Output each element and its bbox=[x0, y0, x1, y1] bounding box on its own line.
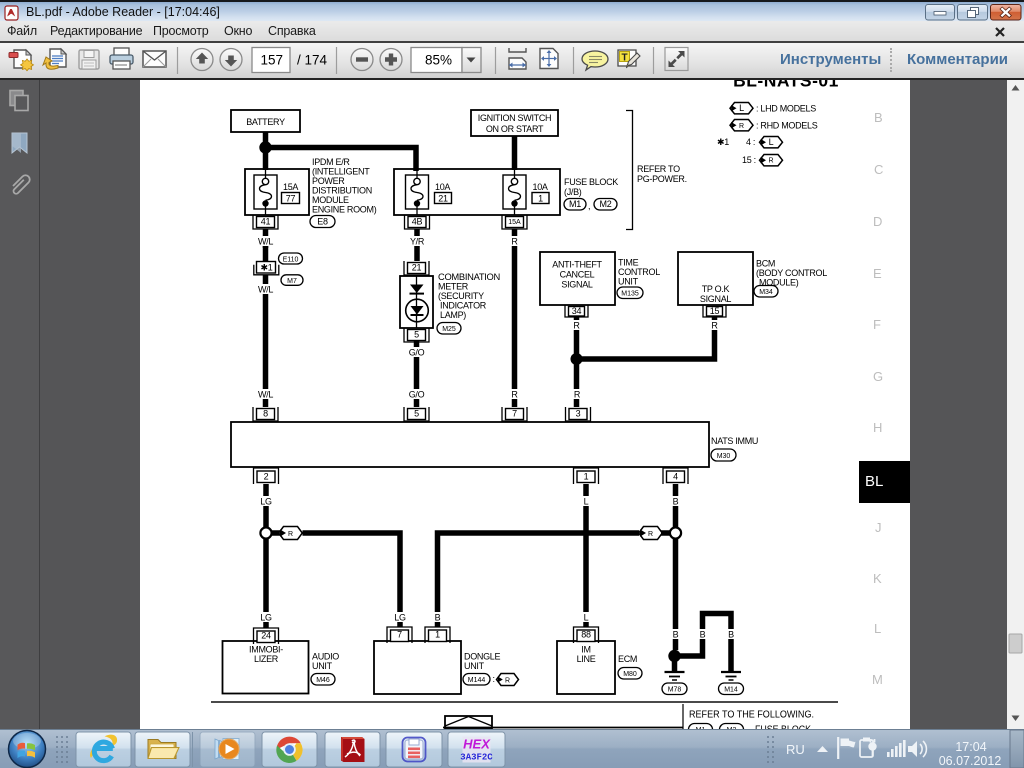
svg-text:157: 157 bbox=[260, 53, 283, 68]
svg-text:REFER TO: REFER TO bbox=[637, 164, 680, 174]
svg-text:LIZER: LIZER bbox=[254, 654, 279, 664]
svg-text:E8: E8 bbox=[317, 217, 328, 227]
svg-text:7: 7 bbox=[512, 409, 517, 419]
svg-text:3A3F2C: 3A3F2C bbox=[460, 753, 493, 763]
svg-text:ENGINE ROOM): ENGINE ROOM) bbox=[312, 205, 377, 215]
svg-text:1: 1 bbox=[435, 630, 440, 640]
svg-text:10A: 10A bbox=[533, 182, 548, 192]
svg-text:BCM: BCM bbox=[756, 259, 775, 269]
svg-text:M34: M34 bbox=[759, 289, 773, 296]
svg-text:B: B bbox=[673, 497, 679, 507]
svg-text:IMMOBI-: IMMOBI- bbox=[249, 645, 283, 655]
svg-text:IM: IM bbox=[581, 645, 590, 655]
svg-text:AUDIO: AUDIO bbox=[312, 652, 339, 662]
svg-text:FUSE BLOCK: FUSE BLOCK bbox=[564, 177, 618, 187]
svg-text:R: R bbox=[511, 390, 518, 400]
svg-text:M144: M144 bbox=[468, 677, 486, 684]
svg-text:(SECURITY: (SECURITY bbox=[438, 291, 484, 301]
svg-text:BATTERY: BATTERY bbox=[246, 117, 285, 127]
svg-text:5: 5 bbox=[414, 330, 419, 340]
svg-text:1: 1 bbox=[538, 194, 543, 204]
svg-text:M25: M25 bbox=[442, 326, 456, 333]
svg-text:DONGLE: DONGLE bbox=[464, 652, 501, 662]
svg-text:W/L: W/L bbox=[258, 390, 273, 400]
svg-text:LAMP): LAMP) bbox=[440, 310, 466, 320]
svg-text:B: B bbox=[728, 630, 734, 640]
svg-text:COMBINATION: COMBINATION bbox=[438, 272, 500, 282]
svg-text:34: 34 bbox=[572, 306, 582, 316]
svg-text:REFER TO THE FOLLOWING.: REFER TO THE FOLLOWING. bbox=[689, 710, 814, 721]
svg-text:M14: M14 bbox=[724, 687, 738, 694]
svg-text:TIME: TIME bbox=[618, 258, 639, 268]
svg-text:R: R bbox=[573, 321, 580, 331]
svg-text:NATS IMMU: NATS IMMU bbox=[711, 436, 758, 446]
svg-text:: LHD MODELS: : LHD MODELS bbox=[756, 104, 816, 114]
svg-text:L: L bbox=[584, 497, 589, 507]
svg-text:88: 88 bbox=[581, 630, 591, 640]
svg-text:IGNITION SWITCH: IGNITION SWITCH bbox=[478, 113, 552, 123]
svg-text:M78: M78 bbox=[668, 687, 682, 694]
svg-text:(BODY CONTROL: (BODY CONTROL bbox=[756, 268, 827, 278]
svg-text:R: R bbox=[288, 531, 293, 538]
svg-text:15A: 15A bbox=[283, 182, 298, 192]
svg-text:UNIT: UNIT bbox=[618, 277, 639, 287]
svg-text:2: 2 bbox=[264, 472, 269, 482]
svg-text:LINE: LINE bbox=[577, 654, 596, 664]
svg-text:21: 21 bbox=[412, 263, 422, 273]
svg-text:PG-POWER.: PG-POWER. bbox=[637, 174, 687, 184]
svg-text:Y/R: Y/R bbox=[410, 237, 425, 247]
svg-text:UNIT: UNIT bbox=[464, 661, 485, 671]
svg-text:15 :: 15 : bbox=[742, 155, 756, 165]
svg-text:CONTROL: CONTROL bbox=[618, 267, 660, 277]
svg-text:DISTRIBUTION: DISTRIBUTION bbox=[312, 186, 372, 196]
svg-text:TP O.K: TP O.K bbox=[702, 284, 730, 294]
svg-text:M80: M80 bbox=[623, 671, 637, 678]
svg-text:IPDM E/R: IPDM E/R bbox=[312, 157, 350, 167]
svg-text:R: R bbox=[768, 158, 773, 165]
svg-text:M2: M2 bbox=[600, 199, 612, 209]
svg-text:SIGNAL: SIGNAL bbox=[700, 294, 732, 304]
svg-text:06.07.2012: 06.07.2012 bbox=[939, 754, 1002, 768]
svg-text:41: 41 bbox=[261, 217, 271, 227]
svg-text:✱1: ✱1 bbox=[717, 137, 729, 147]
svg-text:BL-NATS-01: BL-NATS-01 bbox=[733, 80, 839, 91]
svg-text:INDICATOR: INDICATOR bbox=[440, 301, 487, 311]
svg-text:✱1: ✱1 bbox=[261, 263, 273, 273]
svg-text:RU: RU bbox=[786, 742, 805, 757]
svg-text:CANCEL: CANCEL bbox=[560, 270, 595, 280]
svg-text:(J/B): (J/B) bbox=[564, 187, 582, 197]
svg-text:POWER: POWER bbox=[312, 176, 345, 186]
svg-text:24: 24 bbox=[261, 631, 271, 641]
svg-text:M46: M46 bbox=[316, 677, 330, 684]
svg-text:4 :: 4 : bbox=[746, 137, 755, 147]
svg-text:L: L bbox=[584, 613, 589, 623]
svg-text:G/O: G/O bbox=[409, 390, 425, 400]
svg-text:B: B bbox=[700, 630, 706, 640]
svg-text:5: 5 bbox=[414, 409, 419, 419]
svg-text:G/O: G/O bbox=[409, 348, 425, 358]
svg-text:: RHD MODELS: : RHD MODELS bbox=[756, 121, 818, 131]
svg-text:4B: 4B bbox=[412, 217, 423, 227]
svg-text:15A: 15A bbox=[508, 219, 521, 226]
svg-text:E110: E110 bbox=[283, 257, 299, 264]
svg-text:R: R bbox=[574, 390, 581, 400]
svg-text:ANTI-THEFT: ANTI-THEFT bbox=[552, 260, 602, 270]
svg-text:,: , bbox=[588, 201, 590, 211]
svg-text:ECM: ECM bbox=[618, 654, 637, 664]
svg-text:R: R bbox=[648, 531, 653, 538]
svg-text:HEX: HEX bbox=[463, 737, 491, 752]
svg-text:M30: M30 bbox=[717, 453, 731, 460]
svg-text:/ 174: / 174 bbox=[297, 53, 328, 68]
svg-text:R: R bbox=[505, 678, 510, 685]
svg-text:85%: 85% bbox=[425, 53, 452, 68]
svg-text:M135: M135 bbox=[621, 291, 639, 298]
svg-text:L: L bbox=[739, 103, 744, 113]
svg-text:21: 21 bbox=[438, 194, 448, 204]
svg-text:8: 8 bbox=[263, 409, 268, 419]
svg-text:METER: METER bbox=[438, 282, 469, 292]
svg-text:B: B bbox=[435, 613, 441, 623]
svg-text:M7: M7 bbox=[287, 278, 297, 285]
svg-text:W/L: W/L bbox=[258, 285, 273, 295]
svg-text:ON OR START: ON OR START bbox=[486, 124, 544, 134]
svg-text:10A: 10A bbox=[435, 182, 450, 192]
svg-text:LG: LG bbox=[260, 613, 272, 623]
svg-text:R: R bbox=[711, 321, 718, 331]
svg-text:77: 77 bbox=[286, 194, 296, 204]
svg-text:1: 1 bbox=[584, 472, 589, 482]
svg-text:17:04: 17:04 bbox=[955, 740, 986, 754]
svg-text:MODULE: MODULE bbox=[312, 195, 349, 205]
svg-text:4: 4 bbox=[673, 472, 678, 482]
svg-text:L: L bbox=[769, 137, 774, 147]
svg-text::: : bbox=[493, 674, 495, 684]
svg-text:B: B bbox=[673, 630, 679, 640]
svg-text:15: 15 bbox=[710, 306, 720, 316]
svg-text:SIGNAL: SIGNAL bbox=[561, 280, 593, 290]
svg-text:UNIT: UNIT bbox=[312, 661, 333, 671]
svg-text:LG: LG bbox=[260, 497, 272, 507]
svg-text:7: 7 bbox=[397, 630, 402, 640]
svg-text:LG: LG bbox=[394, 613, 406, 623]
svg-text:R: R bbox=[511, 237, 518, 247]
svg-text:(INTELLIGENT: (INTELLIGENT bbox=[312, 167, 370, 177]
svg-text:M1: M1 bbox=[569, 199, 581, 209]
svg-text:T: T bbox=[622, 53, 628, 64]
svg-text:3: 3 bbox=[576, 409, 581, 419]
svg-text:R: R bbox=[739, 123, 744, 130]
svg-text:W/L: W/L bbox=[258, 237, 273, 247]
